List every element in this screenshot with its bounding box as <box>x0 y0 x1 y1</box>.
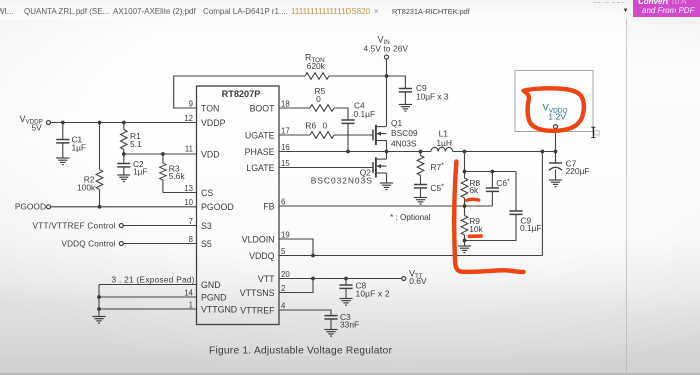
svg-text:Figure 1. Adjustable Voltage R: Figure 1. Adjustable Voltage Regulator <box>209 345 393 356</box>
svg-text:0.6V: 0.6V <box>409 276 427 286</box>
svg-text:6: 6 <box>281 197 285 206</box>
junction FB node <box>463 204 467 208</box>
svg-text:19: 19 <box>281 230 290 239</box>
junction R9 bottom C9 return <box>463 239 467 243</box>
red ink underline 10k <box>469 234 481 238</box>
svg-text:VDD: VDD <box>201 149 220 159</box>
junction VTTSNS on VTT line <box>311 277 315 281</box>
wire TON to top <box>174 76 305 108</box>
svg-text:12: 12 <box>184 114 193 123</box>
ground for C3 <box>324 330 337 337</box>
node VVDDP terminal <box>47 121 51 125</box>
wire Q1 source to phase <box>386 141 388 152</box>
wire VTTSNS line <box>279 279 313 293</box>
svg-text:S5: S5 <box>201 239 212 249</box>
red ink underline 6k <box>467 199 479 200</box>
svg-text:R6: R6 <box>305 121 316 131</box>
wire C1 lead <box>62 123 64 140</box>
junction VTTGND on ground rail <box>97 307 101 311</box>
svg-text:CS: CS <box>201 188 213 198</box>
svg-text:11: 11 <box>185 145 193 154</box>
resistor R5 <box>310 105 334 112</box>
ground for C7 <box>549 180 562 187</box>
wire C4 bottom to phase <box>347 124 349 152</box>
svg-text:TON: TON <box>201 103 219 113</box>
wire Q2 source to ground <box>386 173 388 183</box>
svg-text:VTTREF: VTTREF <box>240 305 275 315</box>
svg-text:8: 8 <box>189 235 193 244</box>
wire LGATE line <box>279 167 373 169</box>
wire C2 lead <box>123 154 125 164</box>
junction VLDOIN on VDDQ line <box>311 254 315 258</box>
ground for R9 <box>458 246 471 253</box>
wire BOOT line <box>279 107 310 109</box>
junction VVDDQ-C7 on output <box>554 150 558 154</box>
wire C7 top lead <box>555 152 557 164</box>
wire VIN terminal drop <box>386 59 388 76</box>
annotation move handle icon <box>591 127 599 137</box>
svg-text:7: 7 <box>189 217 193 226</box>
wire VTTGND line <box>99 308 197 310</box>
svg-text:BSC032N03S: BSC032N03S <box>311 176 372 186</box>
wire R3 bottom lead <box>162 180 164 193</box>
wire VVDDQ terminal drop <box>555 129 557 152</box>
wire UGATE line <box>279 134 310 136</box>
svg-text:0.1µF: 0.1µF <box>354 109 376 119</box>
capacitor C1 <box>56 140 69 143</box>
pin names left <box>201 103 237 314</box>
wire FB line <box>279 205 492 207</box>
wire C5 to ground <box>420 188 422 198</box>
wire R3 top lead <box>162 154 164 163</box>
node S3 control terminal <box>119 224 123 228</box>
junction R2 on VDDP rail <box>98 121 102 125</box>
wire R1 bottom lead <box>123 150 125 155</box>
wire ground rail left <box>98 285 100 317</box>
red ink vertical stroke <box>454 162 523 272</box>
wire divider top node <box>465 171 517 173</box>
wire C3 to ground <box>330 319 332 329</box>
wire PGOOD line <box>51 206 197 208</box>
svg-text:1µH: 1µH <box>436 138 452 148</box>
junction R2 on PGOOD line <box>98 205 102 209</box>
svg-text:PHASE: PHASE <box>245 147 275 157</box>
op-amp/IC U1 RT8207P box <box>197 86 280 325</box>
capacitor C3 <box>324 316 337 319</box>
resistor R8 <box>461 178 468 198</box>
svg-text:FB: FB <box>263 201 274 211</box>
wire R9 top lead <box>464 206 466 216</box>
svg-text:33nF: 33nF <box>340 319 359 329</box>
wire phase to Q2 drain <box>386 152 388 160</box>
svg-text:VLDOIN: VLDOIN <box>242 234 275 244</box>
svg-text:4: 4 <box>281 301 286 310</box>
wire R1 top lead <box>123 123 125 130</box>
svg-text:4N03S: 4N03S <box>391 138 417 148</box>
wire L1 to output <box>453 151 556 153</box>
svg-text:1µF: 1µF <box>72 143 87 153</box>
wire PHASE line <box>279 151 431 153</box>
node VTT terminal <box>402 277 406 281</box>
ground for C8 <box>339 299 352 306</box>
svg-text:13: 13 <box>184 184 193 193</box>
wire R8 top lead <box>464 172 466 179</box>
junction C8 on VTT line <box>344 277 348 281</box>
svg-text:1µF: 1µF <box>133 167 148 177</box>
junction C1 on VDDP rail <box>61 121 65 125</box>
svg-text:VDDQ Control: VDDQ Control <box>62 239 116 248</box>
node VIN terminal <box>385 55 389 59</box>
red ink circle around VVDDQ <box>524 88 584 130</box>
svg-text:1.2V: 1.2V <box>548 112 566 122</box>
svg-text:20: 20 <box>281 270 290 279</box>
svg-text:17: 17 <box>281 126 290 135</box>
svg-text:0: 0 <box>316 94 321 104</box>
svg-text:18: 18 <box>281 99 290 108</box>
wire CS line <box>163 192 197 194</box>
wire C6 bottom lead <box>491 192 493 207</box>
node VVDDQ terminal <box>554 125 558 129</box>
pin numbers left <box>184 99 193 309</box>
junction C4 on phase line <box>346 150 350 154</box>
wire C8 top lead <box>345 279 347 286</box>
ground rail symbol bottom-left <box>92 317 105 324</box>
svg-text:3 . 21 (Exposed Pad): 3 . 21 (Exposed Pad) <box>112 276 195 285</box>
wire VTT line <box>279 278 402 280</box>
junction R1-C2 VDD node <box>122 152 126 156</box>
svg-text:Q1: Q1 <box>391 118 403 128</box>
wire C9 input to ground <box>404 92 406 105</box>
junction R7 tap on phase line <box>419 150 423 154</box>
wire C9 top lead <box>515 172 517 212</box>
wire VDDQ line <box>279 255 542 257</box>
svg-text:1: 1 <box>189 300 193 309</box>
junction Q1-Q2 phase node <box>385 150 389 154</box>
resistor R9 <box>461 216 468 236</box>
wire R5 to C4 <box>334 108 348 120</box>
svg-text:PGOOD: PGOOD <box>201 202 234 212</box>
wire VLDOIN line <box>279 239 313 256</box>
svg-text:VTT/VTTREF Control: VTT/VTTREF Control <box>33 221 116 230</box>
svg-text:VDDP: VDDP <box>201 118 226 128</box>
ground for Q2 source <box>380 183 393 190</box>
wire PGND line <box>99 296 197 298</box>
capacitor C7 polarized plates <box>549 163 562 170</box>
wire VDDQ sense riser <box>541 152 543 256</box>
svg-text:R7*: R7* <box>430 162 444 172</box>
ground for C2 <box>117 175 130 182</box>
svg-text:9: 9 <box>189 99 193 108</box>
node PGOOD terminal <box>47 205 51 209</box>
svg-text:C5*: C5* <box>430 183 444 193</box>
svg-text:15: 15 <box>281 159 290 168</box>
svg-text:14: 14 <box>184 288 193 297</box>
ground for C1 <box>56 158 69 165</box>
junction VIN node <box>385 74 389 78</box>
capacitor C9 feedback <box>509 211 522 214</box>
junction R1 on VDDP rail <box>122 121 126 125</box>
svg-text:5.6k: 5.6k <box>169 171 186 181</box>
wire VDD line <box>124 153 197 155</box>
junction R3 on VDD line <box>161 152 165 156</box>
svg-text:GND: GND <box>201 280 221 290</box>
svg-text:LGATE: LGATE <box>246 163 274 173</box>
wire R2 top lead <box>99 123 101 170</box>
resistor R6 <box>310 132 334 139</box>
wire VVDDP rail <box>51 122 197 124</box>
wire R7 to C5 <box>420 176 422 185</box>
pin names right <box>240 103 275 315</box>
capacitor C4 <box>341 120 354 123</box>
capacitor C9 input <box>399 89 412 92</box>
svg-text:5V: 5V <box>32 123 43 133</box>
wire R7 top lead <box>420 152 422 156</box>
wire C2 to ground <box>123 167 125 175</box>
capacitor C5 <box>414 185 427 188</box>
transistor Q2 <box>373 157 387 177</box>
ground for C9 input <box>399 105 412 112</box>
pin numbers right <box>281 99 290 310</box>
resistor R7 <box>417 156 424 176</box>
svg-text:0.1µF: 0.1µF <box>520 223 542 233</box>
wire RTON to VIN node <box>329 75 387 77</box>
wire GND line <box>99 284 197 286</box>
svg-text:100k: 100k <box>77 183 96 193</box>
inductor L1 <box>431 147 453 151</box>
capacitor C6 <box>486 188 499 191</box>
wire Q1 drain <box>386 76 388 127</box>
wire R6 to Q1 gate <box>334 134 373 136</box>
junction VDDQ riser on output <box>541 150 545 154</box>
wire divider riser <box>464 152 466 172</box>
svg-text:BSC09: BSC09 <box>391 128 418 138</box>
wire VTTREF line <box>279 310 331 316</box>
transistor Q1 <box>373 125 387 145</box>
wire R2 bottom lead <box>99 189 101 206</box>
wire S5 line <box>124 243 197 245</box>
svg-text:VTT: VTT <box>258 274 275 284</box>
svg-text:10µF x 2: 10µF x 2 <box>356 288 390 298</box>
svg-text:16: 16 <box>281 143 290 152</box>
wire C9 bottom return <box>465 215 517 241</box>
wire C8 to ground <box>345 289 347 299</box>
capacitor C8 <box>339 285 352 288</box>
svg-text:5.1: 5.1 <box>130 139 142 149</box>
resistor RTON <box>305 73 329 80</box>
svg-text:10µF x 3: 10µF x 3 <box>416 91 449 101</box>
svg-text:VTTGND: VTTGND <box>201 304 237 314</box>
svg-text:UGATE: UGATE <box>245 130 275 140</box>
junction divider top node <box>463 170 467 174</box>
junction PGND on ground rail <box>97 295 101 299</box>
svg-text:C6*: C6* <box>496 178 510 188</box>
svg-text:220µF: 220µF <box>566 166 590 176</box>
svg-text:4.5V to 26V: 4.5V to 26V <box>364 45 409 54</box>
wire C6 top lead <box>491 172 493 189</box>
wire R9 bottom lead <box>464 235 466 246</box>
wire VIN node to C9 input <box>387 76 406 89</box>
resistor R3 <box>160 163 167 180</box>
svg-text:10: 10 <box>184 198 193 207</box>
svg-text:BOOT: BOOT <box>250 103 276 113</box>
svg-text:VDDQ: VDDQ <box>249 251 275 261</box>
svg-text:0: 0 <box>323 121 328 131</box>
ground for C5 <box>414 198 427 205</box>
svg-text:PGOOD: PGOOD <box>15 202 46 212</box>
node VVDDQ annotation box <box>515 71 593 132</box>
svg-text:10k: 10k <box>469 224 483 234</box>
resistor R1 <box>121 130 128 150</box>
wire C7 to ground <box>555 170 557 181</box>
svg-text:6k: 6k <box>469 185 479 195</box>
resistor R2 <box>96 170 103 190</box>
svg-text:5: 5 <box>281 247 286 256</box>
svg-text:2: 2 <box>281 284 285 293</box>
wire S3 line <box>124 225 197 227</box>
svg-text:VTTSNS: VTTSNS <box>240 288 275 298</box>
svg-text:RT8207P: RT8207P <box>222 89 261 99</box>
svg-text:620k: 620k <box>307 61 326 71</box>
node S5 control terminal <box>119 242 123 246</box>
svg-text:PGND: PGND <box>201 292 226 302</box>
wire C1 to ground <box>62 143 64 158</box>
svg-text:S3: S3 <box>201 221 212 231</box>
junction divider riser on output <box>463 150 467 154</box>
svg-text:* : Optional: * : Optional <box>390 213 431 222</box>
capacitor C2 <box>117 164 130 167</box>
wire R8 bottom lead <box>464 198 466 206</box>
junction C6 top node <box>491 170 495 174</box>
